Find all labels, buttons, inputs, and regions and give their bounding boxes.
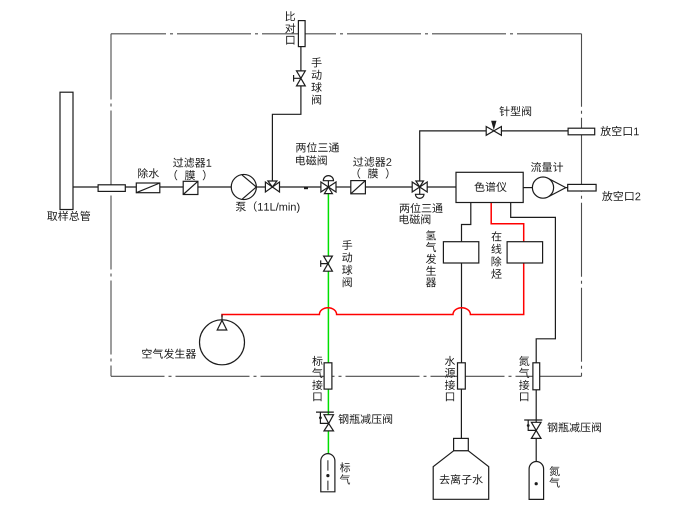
wire chromatograph to flow meter	[523, 187, 532, 189]
label water-port	[445, 356, 455, 401]
enclosure border top	[111, 33, 582, 35]
wire three-way valve to solenoid 1	[280, 186, 322, 188]
wire filter 2 to solenoid 2	[365, 186, 412, 188]
label n2	[549, 466, 559, 488]
label dehc	[491, 231, 501, 278]
label regulator2	[547, 422, 601, 432]
comparison port bulkhead (bi-dui-kou)	[298, 21, 305, 47]
label ball1	[312, 57, 322, 104]
cylinder regulator 1 (standard gas)	[316, 412, 334, 431]
cylinder regulator 2 (nitrogen)	[524, 420, 542, 438]
wire nitrogen port to nitrogen cylinder	[535, 389, 537, 462]
water source port bulkhead	[458, 363, 466, 389]
wire hydrogen generator to water port	[461, 263, 463, 363]
label flowmeter	[531, 162, 563, 172]
label sol1-l2	[296, 155, 327, 165]
bulkhead fitting on left border	[98, 185, 125, 192]
label filter2-l1	[353, 157, 391, 167]
filter 1 (membrane)	[183, 181, 198, 194]
wire air line (red)	[222, 203, 524, 317]
water removal filter (chu-shui)	[136, 183, 160, 193]
hydrogen generator box	[443, 242, 478, 263]
three-way valve at comparison branch	[265, 181, 279, 192]
wire water port to deionized water bottle	[460, 389, 462, 439]
label sol2-l2	[400, 214, 431, 224]
label n2-port	[519, 356, 529, 401]
label vent1	[601, 126, 639, 136]
label regulator1	[339, 414, 393, 424]
label bi-dui-kou	[285, 11, 295, 44]
enclosure border left	[110, 34, 112, 377]
label needle	[499, 106, 531, 116]
wire solenoid 2 to chromatograph	[427, 186, 456, 188]
wire standard gas line (green)	[327, 194, 329, 454]
standard gas cylinder	[321, 454, 335, 492]
solenoid valve 1 body	[321, 176, 336, 194]
standard gas port bulkhead	[324, 363, 332, 389]
label filter1-l1	[173, 158, 211, 168]
label qu-yang-zong-guan	[47, 211, 90, 221]
flow meter	[532, 177, 565, 198]
label stdgas	[340, 462, 350, 484]
wire flow meter to vent 2	[565, 187, 569, 189]
label chu-shui	[138, 168, 159, 178]
air generator	[200, 315, 245, 365]
manual ball valve 2 (standard gas)	[321, 256, 333, 271]
sampling manifold bar	[60, 92, 73, 209]
needle valve	[486, 121, 501, 135]
wire solenoid 1 to filter 2	[336, 186, 351, 188]
label airgen	[142, 349, 196, 359]
tick on main line	[304, 187, 308, 189]
deionized water bottle	[433, 438, 489, 499]
solenoid valve 2 body	[412, 181, 427, 198]
enclosure border bottom	[111, 375, 582, 377]
label di-water	[440, 474, 483, 484]
manual ball valve 1 (comparison)	[294, 71, 306, 86]
label sol2-l1	[400, 203, 443, 213]
wire ball valve 1 to comparison port	[300, 47, 302, 71]
label stdgas-port	[312, 356, 322, 401]
filter 2 (membrane)	[351, 181, 366, 194]
nitrogen cylinder	[529, 462, 544, 500]
label gc	[474, 182, 506, 192]
nitrogen port bulkhead	[533, 363, 540, 390]
vent port 1 bulkhead	[568, 128, 595, 135]
wire chromatograph to nitrogen port	[511, 203, 556, 363]
chromatograph box (se-pu-yi)	[456, 172, 523, 202]
label vent2	[602, 191, 640, 201]
online hydrocarbon removal box	[507, 242, 542, 263]
label filter1-l2	[175, 170, 206, 181]
wire pump to three-way valve	[256, 186, 265, 188]
wire solenoid 2 riser to needle valve line	[420, 131, 569, 181]
label ball2	[342, 240, 352, 287]
label h2gen	[426, 230, 436, 287]
vent port 2 bulkhead	[568, 184, 596, 191]
label filter2-l2	[358, 168, 389, 179]
wire chromatograph to hydrogen generator	[462, 203, 471, 242]
label sol1-l1	[296, 142, 339, 152]
wire comparison branch riser	[272, 86, 301, 181]
enclosure border right	[581, 34, 583, 377]
label pump	[236, 201, 300, 213]
pump circle	[231, 174, 256, 199]
wire main line manifold to pump	[73, 186, 231, 188]
